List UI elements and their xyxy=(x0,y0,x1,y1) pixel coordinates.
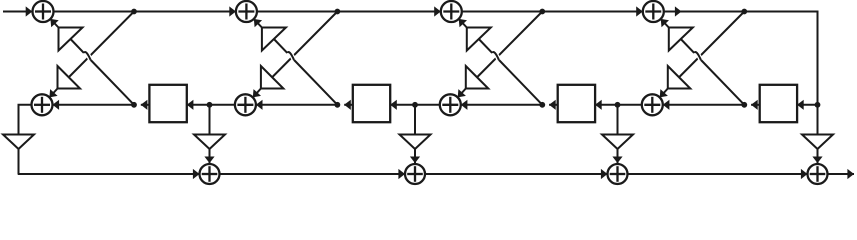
adder R4 (row-2 summing junction) xyxy=(642,94,663,115)
gain triangle kb1 (to row-2 adder) xyxy=(58,66,81,89)
wire: cross diagonal from node S3 up to gain ka3, with hop over crossing xyxy=(499,60,542,105)
adder R1 (row-2 summing junction) xyxy=(32,94,53,115)
wire: adder R4 output to tap node P3 xyxy=(618,104,642,106)
wire: adder A2 output to node T2 xyxy=(257,10,338,12)
wire: gain v4 output arrow into adder B4 xyxy=(817,149,819,163)
wire: cross diagonal from node T4 down to gain kb4 xyxy=(679,12,744,78)
wire: gain v3 output arrow into adder B3 xyxy=(617,149,619,163)
wire: gain kb4 output arrow into adder R4 xyxy=(660,89,668,98)
wire: delay Z1 output to node S1 xyxy=(141,104,150,106)
wire: node T3 to adder A4 xyxy=(542,10,643,12)
wire: adder A1 output to node T1 xyxy=(54,10,135,12)
wire: cross diagonal from node T3 down to gain kb3 xyxy=(477,12,542,78)
gain triangle kb3 (to row-2 adder) xyxy=(466,66,489,89)
node S2 (row-2 junction) xyxy=(335,102,341,108)
wire: tap column into delay Z2 input xyxy=(390,104,415,106)
node T2 (top junction) xyxy=(335,9,341,15)
wire: node S2 to adder R2 xyxy=(256,104,338,106)
delay element Z1 (unit delay box) xyxy=(149,85,186,122)
wire: cross diagonal from node S4 up to gain ka4, with hop over crossing xyxy=(701,60,744,105)
wire: gain ka1 output arrow into adder A1 xyxy=(50,19,58,28)
wire: gain ka4 output arrow into adder A4 xyxy=(661,19,669,28)
wire: tap node P2 down to gain v2 xyxy=(414,105,416,135)
wire: right feedback vertical xyxy=(817,11,819,135)
node T3 (top junction) xyxy=(539,9,545,15)
wire: tap column into delay Z3 input xyxy=(595,104,617,106)
wire: node S4 to adder R4 xyxy=(663,104,745,106)
node P3 (tap junction) xyxy=(615,102,621,108)
gain triangle v0 (first tap gain) xyxy=(3,135,34,150)
wire: tap node P3 down to gain v3 xyxy=(617,105,619,135)
adder B1 (output summing junction) xyxy=(200,164,220,184)
wire: delay Z4 output to node S4 xyxy=(751,104,760,106)
node S4 (row-2 junction) xyxy=(741,102,747,108)
wire: adder R1 output to gain v0 xyxy=(19,105,32,135)
wire: node S1 to adder R1 xyxy=(53,104,135,106)
gain triangle ka2 (to top adder) xyxy=(262,28,286,51)
gain triangle ka4 (to top adder) xyxy=(669,28,693,51)
node P4 (tap junction) xyxy=(815,102,821,108)
wire: gain ka2 output arrow into adder A2 xyxy=(254,19,262,28)
wire: delay Z3 output to node S3 xyxy=(549,104,558,106)
gain triangle ka3 (to top adder) xyxy=(467,28,491,51)
adder A2 (top summing junction) xyxy=(236,1,257,22)
wire: adder R3 output to tap node P2 xyxy=(415,104,440,106)
wire: node T4 to top-right corner xyxy=(744,10,817,12)
wire: node T1 to adder A2 xyxy=(134,10,236,12)
gain triangle v1 (tap gain) xyxy=(194,135,225,150)
node S3 (row-2 junction) xyxy=(539,102,545,108)
gain triangle kb4 (to row-2 adder) xyxy=(668,66,691,89)
wire: tap node P1 down to gain v1 xyxy=(209,105,211,135)
wire: node S3 to adder R3 xyxy=(461,104,543,106)
adder B4 (output summing junction) xyxy=(808,164,828,184)
gain triangle v4 (tap gain) xyxy=(802,135,833,150)
adder R3 (row-2 summing junction) xyxy=(440,94,461,115)
adder A4 (top summing junction) xyxy=(643,1,664,22)
wire: gain ka3 output arrow into adder A3 xyxy=(459,19,467,28)
wire: adder A4 output to node T4 xyxy=(664,10,745,12)
wire: cross diagonal from node T1 down to gain kb1 xyxy=(69,12,134,78)
node P2 (tap junction) xyxy=(412,102,418,108)
wire: tap column into delay Z1 input xyxy=(187,104,210,106)
adder B3 (output summing junction) xyxy=(608,164,628,184)
wire: adder B1 to adder B2 xyxy=(220,173,406,175)
wire: node T2 to adder A3 xyxy=(337,10,440,12)
output wire xyxy=(828,173,855,175)
gain triangle kb2 (to row-2 adder) xyxy=(261,66,284,89)
node P1 (tap junction) xyxy=(207,102,213,108)
wire: gain v1 output arrow into adder B1 xyxy=(209,149,211,163)
wire: cross diagonal from node S1 up to gain ka1, with hop over crossing xyxy=(91,60,134,105)
wire: gain v2 output arrow into adder B2 xyxy=(414,149,416,163)
input wire xyxy=(3,10,32,12)
adder B2 (output summing junction) xyxy=(405,164,425,184)
wire: cross diagonal from node T2 down to gain kb2 xyxy=(272,12,337,78)
adder A1 (top summing junction) xyxy=(33,1,54,22)
gain triangle ka1 (to top adder) xyxy=(59,28,83,51)
wire: adder A3 output to node T3 xyxy=(462,10,543,12)
wire: gain v0 down to bottom row xyxy=(18,149,20,174)
wire: gain kb1 output arrow into adder R1 xyxy=(49,89,57,98)
wire: tap column into delay Z4 input xyxy=(797,104,817,106)
adder A3 (top summing junction) xyxy=(441,1,462,22)
wire: adder R2 output to tap node P1 xyxy=(210,104,235,106)
wire: gain kb2 output arrow into adder R2 xyxy=(253,89,261,98)
wire: delay Z2 output to node S2 xyxy=(344,104,353,106)
wire: gain kb3 output arrow into adder R3 xyxy=(458,89,466,98)
wire: adder B2 to adder B3 xyxy=(425,173,608,175)
lattice filter signal-flow diagram xyxy=(0,0,857,187)
node S1 (row-2 junction) xyxy=(131,102,137,108)
wire: tap node P4 down to gain v4 xyxy=(817,105,819,135)
wire: bottom row into adder B1 xyxy=(18,173,200,175)
delay element Z3 (unit delay box) xyxy=(558,85,595,122)
node T4 (top junction) xyxy=(741,9,747,15)
node T1 (top junction) xyxy=(131,9,137,15)
wire: cross diagonal from node S2 up to gain ka2, with hop over crossing xyxy=(294,60,337,105)
gain triangle v3 (tap gain) xyxy=(602,135,633,150)
mid-wire arrow after adder A4 xyxy=(675,6,682,16)
adder R2 (row-2 summing junction) xyxy=(235,94,256,115)
delay element Z4 (unit delay box) xyxy=(760,85,797,122)
delay element Z2 (unit delay box) xyxy=(353,85,390,122)
gain triangle v2 (tap gain) xyxy=(400,135,431,150)
wire: adder B3 to adder B4 xyxy=(628,173,808,175)
